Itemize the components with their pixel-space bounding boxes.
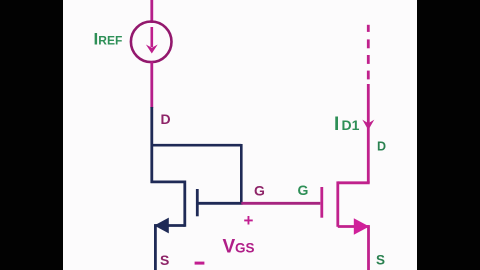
wire: drain lead of M2 (solid magenta) <box>367 84 370 183</box>
label ID1 <box>334 114 360 135</box>
svg-text:REF: REF <box>98 34 122 48</box>
M1 source arrow (points left) <box>154 218 169 234</box>
wire: gate-drain tie right vertical <box>240 144 243 203</box>
wire: gate lead of M1 (navy) <box>197 202 243 205</box>
svg-text:I: I <box>334 114 339 135</box>
wire: IREF output (magenta segment) <box>150 62 153 109</box>
svg-text:G: G <box>298 182 309 198</box>
wire: drain lead of M1 (navy segment) <box>150 107 153 183</box>
svg-text:V: V <box>223 236 236 257</box>
M1 source lead down <box>154 224 157 270</box>
label IREF <box>94 30 123 49</box>
M1 drain connect horizontal <box>151 180 185 183</box>
ID1 current arrow head <box>362 120 374 130</box>
transistor M2 (output NMOS, magenta) <box>322 181 370 270</box>
M1 channel bar <box>183 181 186 227</box>
M2 source horizontal <box>338 225 369 228</box>
M2 drain connect horizontal <box>338 181 370 184</box>
letterbox bar right <box>417 0 480 270</box>
wire: ID1 dashed current path <box>367 25 370 80</box>
svg-text:D1: D1 <box>342 117 360 133</box>
M2 channel bar <box>336 181 339 226</box>
transistor M1 (diode-connected NMOS, navy) <box>151 181 198 270</box>
svg-text:D: D <box>161 111 171 127</box>
svg-text:GS: GS <box>235 240 255 255</box>
svg-text:+: + <box>244 211 254 230</box>
current source IREF (circle symbol) <box>131 22 172 63</box>
label - (VGS minus) <box>195 262 205 265</box>
M2 gate bar <box>320 187 323 218</box>
M1 gate bar <box>196 189 199 216</box>
wire: shared gate line (magenta) <box>241 202 320 205</box>
svg-text:G: G <box>254 183 265 199</box>
M2 source lead down <box>367 225 370 270</box>
M2 source arrow (points right) <box>354 218 370 235</box>
current source arrow (downward) <box>146 27 158 54</box>
wire: top supply feed into IREF source <box>150 0 153 23</box>
label VGS <box>223 236 255 257</box>
M1 source horizontal <box>155 224 184 227</box>
wire: gate-drain tie top horizontal <box>151 144 242 147</box>
svg-text:S: S <box>160 252 169 268</box>
svg-text:S: S <box>376 252 385 267</box>
svg-text:D: D <box>377 139 386 153</box>
letterbox bar left <box>0 0 63 270</box>
